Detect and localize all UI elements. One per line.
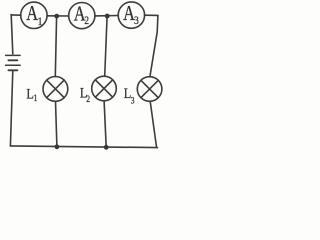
svg-text:1: 1 bbox=[38, 15, 43, 28]
node a (junction dot between A1 and A2) bbox=[54, 14, 59, 19]
node c (junction dot bottom under L1) bbox=[55, 144, 60, 149]
svg-text:1: 1 bbox=[34, 92, 38, 103]
wire: A3 right to top-right corner bbox=[145, 14, 158, 16]
wire: right vertical upper (corner down to L3 top) bbox=[150, 15, 158, 76]
label A3 bbox=[123, 2, 139, 27]
wire: L3 bottom down to bottom-right corner bbox=[150, 101, 156, 147]
label L3 bbox=[124, 85, 135, 106]
wire: node a down to L1 top bbox=[55, 16, 56, 77]
label A1 bbox=[26, 2, 42, 28]
label A2 bbox=[74, 2, 89, 27]
wire: top-left horizontal to A1 bbox=[11, 14, 21, 16]
svg-text:A: A bbox=[26, 2, 38, 25]
label L1 bbox=[26, 85, 37, 103]
wire: left vertical upper (to battery) bbox=[11, 15, 13, 54]
svg-text:2: 2 bbox=[84, 14, 89, 27]
node b (junction dot between A2 and A3) bbox=[105, 14, 110, 19]
wire: bottom horizontal bbox=[10, 146, 157, 148]
lamp L2 circle with cross bbox=[92, 76, 117, 101]
label L2 bbox=[80, 84, 90, 104]
wire: A1 right to A2 left through node bbox=[47, 15, 69, 17]
battery (two cells) bbox=[6, 55, 21, 70]
wire: node b down to L2 top bbox=[105, 16, 107, 76]
svg-text:3: 3 bbox=[134, 14, 139, 27]
svg-text:3: 3 bbox=[131, 94, 135, 105]
wire: L2 bottom down to node d bbox=[104, 101, 106, 147]
wire: left vertical lower (battery to bottom-left corner) bbox=[10, 71, 12, 146]
ammeter A2 circle bbox=[69, 3, 95, 29]
wire: A2 right to A3 left through node bbox=[95, 15, 119, 17]
ammeter A1 circle bbox=[21, 2, 47, 28]
wire: L1 bottom down to node c bbox=[56, 101, 57, 146]
ammeter A3 circle bbox=[118, 2, 144, 28]
lamp L3 circle with cross bbox=[137, 77, 162, 102]
lamp L1 circle with cross bbox=[43, 77, 68, 102]
svg-text:2: 2 bbox=[86, 93, 90, 104]
node d (junction dot bottom under L2) bbox=[104, 145, 109, 150]
svg-text:L: L bbox=[26, 85, 34, 101]
